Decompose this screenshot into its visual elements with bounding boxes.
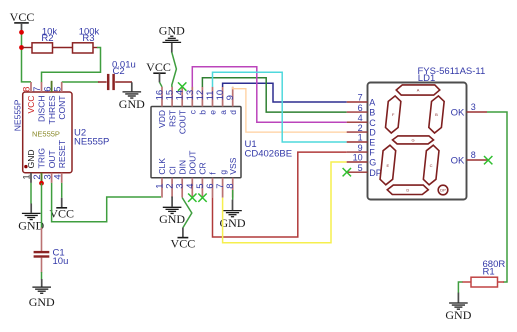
svg-text:B: B <box>369 108 375 118</box>
svg-text:CR: CR <box>198 162 208 174</box>
wire pin4 RESET to VCC <box>61 183 63 198</box>
svg-text:VCC: VCC <box>10 10 35 24</box>
svg-text:GND: GND <box>26 149 36 168</box>
svg-text:9: 9 <box>358 143 363 153</box>
svg-text:1: 1 <box>358 133 363 143</box>
wire b -> B (green) <box>202 78 346 112</box>
svg-text:VCC: VCC <box>26 96 36 114</box>
svg-text:GND: GND <box>29 295 55 309</box>
svg-text:g: g <box>218 170 228 175</box>
svg-text:RST: RST <box>167 110 177 127</box>
wire f -> F (dark red) <box>213 152 347 237</box>
segment A <box>396 85 440 95</box>
wire LD1 pin3 to R1 <box>487 112 507 282</box>
power flag VCC under pin 4 <box>61 198 63 208</box>
svg-text:OK: OK <box>451 108 465 119</box>
wire TRIG node to C1 <box>41 183 43 228</box>
wire c -> C (magenta) <box>192 67 346 122</box>
svg-text:C: C <box>430 163 433 168</box>
svg-text:10: 10 <box>353 153 363 163</box>
svg-text:10u: 10u <box>53 256 69 267</box>
svg-text:VSS: VSS <box>228 157 238 174</box>
ground for U2 pin 1 <box>30 204 32 213</box>
svg-text:C: C <box>369 118 376 128</box>
svg-text:8: 8 <box>22 87 33 92</box>
svg-text:GND: GND <box>159 23 185 37</box>
svg-text:9: 9 <box>225 95 236 100</box>
no-connect X on pin 14 COUT <box>178 82 186 90</box>
svg-text:8: 8 <box>225 183 236 188</box>
wire R3 right stub <box>93 47 98 49</box>
U2 pin stubs top (8,7,6,5) <box>30 82 32 92</box>
svg-text:A: A <box>369 98 375 108</box>
svg-text:GND: GND <box>119 97 145 111</box>
svg-text:5: 5 <box>358 163 363 173</box>
wire THRES(6) through chip to TRIG(2) <box>42 82 52 184</box>
svg-text:CD4026BE: CD4026BE <box>245 149 293 160</box>
svg-text:GND: GND <box>445 308 471 322</box>
svg-text:VDD: VDD <box>157 110 167 128</box>
wire R2 to R3 <box>53 47 73 49</box>
ground for C2 <box>131 82 133 91</box>
svg-text:CLK: CLK <box>157 158 167 175</box>
svg-text:e: e <box>208 110 218 115</box>
wire ground zigzag to pin 15 <box>172 52 177 87</box>
capacitor C2 0.01u <box>98 81 107 83</box>
svg-text:DISCH: DISCH <box>37 96 47 122</box>
wire junction to R2 <box>23 47 33 49</box>
ground for U1 pin 8 <box>232 200 234 210</box>
LD1 left pin stubs <box>347 101 368 103</box>
wire U2 pin 5 CONT to C2 <box>62 81 99 83</box>
svg-text:THRES: THRES <box>47 95 57 124</box>
no-connect X on pin 4 DOUT <box>188 194 196 202</box>
ground for R1 <box>457 293 459 303</box>
U2 pin stubs bottom (1,2,3,4) <box>30 173 32 183</box>
svg-text:D: D <box>369 128 376 138</box>
junction on VCC stem <box>19 30 24 35</box>
svg-text:E: E <box>369 138 375 148</box>
svg-text:R1: R1 <box>483 267 495 278</box>
wire VCC rail down to U2 pin 8 <box>22 31 32 82</box>
svg-text:DIN: DIN <box>177 160 187 175</box>
svg-text:F: F <box>369 148 375 158</box>
segment D <box>387 185 428 194</box>
svg-text:VCC: VCC <box>146 60 171 74</box>
svg-text:D: D <box>406 187 409 192</box>
wire g -> G (yellow) <box>223 162 347 243</box>
segment C <box>423 145 439 185</box>
svg-text:G: G <box>411 137 414 142</box>
LD1 right pin stubs 3,8 <box>467 111 488 113</box>
svg-text:d: d <box>228 110 238 115</box>
display body LD1 FYS-5611AS-11 <box>368 83 467 200</box>
no-connect X on right pin 8 <box>484 156 492 164</box>
ground for U1 pin 2 CI <box>171 197 173 207</box>
svg-text:1: 1 <box>22 174 33 179</box>
wire d -> D (orange) <box>233 87 347 132</box>
resistor R1 680R <box>498 281 505 283</box>
svg-text:DOUT: DOUT <box>188 151 198 175</box>
wire pin 3 DIN zigzag to VCC <box>182 198 192 228</box>
svg-text:5: 5 <box>52 87 63 92</box>
svg-text:NE555P: NE555P <box>32 129 60 138</box>
svg-text:OK: OK <box>451 156 465 167</box>
ground for C1 <box>41 279 43 287</box>
junction at TRIG pin 2 <box>39 181 44 186</box>
svg-text:VCC: VCC <box>49 207 74 221</box>
svg-text:R2: R2 <box>41 33 53 44</box>
svg-text:DP: DP <box>440 188 446 193</box>
svg-text:NE555P: NE555P <box>12 99 22 131</box>
segment G <box>393 136 434 144</box>
svg-text:GND: GND <box>18 219 44 233</box>
svg-text:a: a <box>218 110 228 115</box>
svg-text:b: b <box>198 110 208 115</box>
svg-text:R3: R3 <box>82 33 94 44</box>
U2 pin-1 marker dot <box>24 165 27 168</box>
wire C1 to ground <box>41 272 43 280</box>
svg-text:GND: GND <box>159 212 185 226</box>
svg-text:CI: CI <box>167 166 177 175</box>
decimal point DP <box>438 185 448 195</box>
segment F <box>386 96 401 133</box>
svg-text:6: 6 <box>358 103 363 113</box>
wire U2 OUT to U1 CLK <box>52 183 161 222</box>
svg-text:CONT: CONT <box>57 96 67 120</box>
svg-text:B: B <box>435 112 438 117</box>
svg-text:LD1: LD1 <box>418 73 435 84</box>
op chip body U2 NE555P <box>23 92 72 173</box>
svg-text:4: 4 <box>358 113 363 123</box>
svg-text:TRIG: TRIG <box>37 148 47 168</box>
svg-text:2: 2 <box>358 123 363 133</box>
resistor R2 10k <box>32 43 53 53</box>
svg-text:RESET: RESET <box>57 140 67 168</box>
ground flag above U1 pin 15 <box>163 41 182 43</box>
capacitor C1 10u <box>41 228 43 252</box>
svg-text:GND: GND <box>220 216 246 230</box>
wire e -> E (cyan) <box>213 72 347 142</box>
svg-text:C2: C2 <box>113 66 125 77</box>
power flag VCC (top-left) <box>14 22 29 24</box>
svg-text:NE555P: NE555P <box>74 136 109 147</box>
segment E <box>380 145 396 185</box>
U1 pin stubs bottom <box>161 178 163 198</box>
wire R1 to ground <box>458 282 462 293</box>
svg-text:G: G <box>369 158 376 168</box>
power flag VCC under U1 pin 3 <box>182 228 184 238</box>
svg-text:8: 8 <box>471 150 476 160</box>
resistor R3 100k <box>73 43 94 53</box>
ic body U1 CD4026BE <box>151 107 241 178</box>
power flag VCC above U1 pin 16 <box>153 72 165 74</box>
svg-text:7: 7 <box>358 93 363 103</box>
wire R3 to U2 pin 7 DISCH <box>42 48 101 83</box>
svg-text:4: 4 <box>52 174 63 179</box>
svg-text:COUT: COUT <box>177 110 187 134</box>
wire pin1 to ground <box>30 183 32 204</box>
svg-text:3: 3 <box>471 102 476 112</box>
junction at R2 tap <box>19 45 24 50</box>
no-connect X on DP pin <box>343 168 351 176</box>
svg-text:OUT: OUT <box>47 150 57 168</box>
wire U1 pin 8 VSS to ground <box>232 190 234 200</box>
wire a -> A (navy) <box>223 83 347 102</box>
U1 pin stubs top <box>161 87 163 107</box>
segment B <box>429 96 444 133</box>
no-connect X on pin 5 CR <box>198 194 206 202</box>
svg-text:VCC: VCC <box>171 236 196 250</box>
svg-text:E: E <box>386 163 389 168</box>
svg-text:A: A <box>417 88 420 93</box>
wire VCC to pin 16 <box>160 82 163 87</box>
